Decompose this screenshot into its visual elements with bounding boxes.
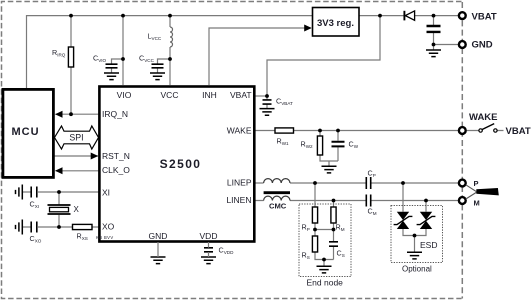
svg-text:CS: CS bbox=[337, 249, 345, 259]
svg-text:CMC: CMC bbox=[269, 201, 287, 210]
svg-text:VBAT: VBAT bbox=[230, 90, 252, 100]
svg-text:P: P bbox=[474, 179, 479, 188]
svg-text:End node: End node bbox=[307, 278, 344, 288]
svg-text:LVCC: LVCC bbox=[148, 32, 162, 42]
svg-text:GND: GND bbox=[472, 40, 493, 51]
svg-text:RW2: RW2 bbox=[301, 140, 314, 150]
svg-text:CXO: CXO bbox=[30, 234, 42, 244]
svg-text:VDD: VDD bbox=[200, 231, 218, 241]
svg-text:ESD: ESD bbox=[420, 240, 437, 250]
svg-text:CVDD: CVDD bbox=[219, 246, 235, 256]
svg-text:GND: GND bbox=[149, 231, 168, 241]
svg-text:RS: RS bbox=[302, 251, 310, 261]
svg-text:IRQ_N: IRQ_N bbox=[102, 109, 128, 119]
svg-text:CW: CW bbox=[349, 140, 359, 150]
svg-text:RST_N: RST_N bbox=[102, 151, 130, 161]
svg-text:CM: CM bbox=[368, 207, 377, 217]
svg-text:VCC: VCC bbox=[161, 90, 179, 100]
svg-text:S2500: S2500 bbox=[160, 157, 202, 171]
svg-text:VIO: VIO bbox=[117, 90, 132, 100]
svg-text:WAKE: WAKE bbox=[469, 112, 498, 123]
svg-text:M: M bbox=[474, 198, 480, 207]
svg-text:CVIO: CVIO bbox=[93, 54, 107, 64]
svg-text:CVBAT: CVBAT bbox=[276, 97, 293, 107]
svg-text:XI: XI bbox=[102, 188, 110, 198]
svg-text:LINEN: LINEN bbox=[226, 195, 251, 205]
svg-text:RW1: RW1 bbox=[277, 137, 290, 147]
svg-text:CVCC: CVCC bbox=[139, 54, 155, 64]
svg-text:Optional: Optional bbox=[402, 265, 432, 274]
svg-text:CLK_O: CLK_O bbox=[102, 165, 130, 175]
svg-text:INH: INH bbox=[202, 90, 217, 100]
svg-text:RIRQ: RIRQ bbox=[52, 48, 66, 58]
svg-text:XO: XO bbox=[102, 222, 115, 232]
svg-text:VBAT: VBAT bbox=[506, 126, 531, 137]
svg-text:X: X bbox=[74, 205, 80, 214]
svg-text:3V3 reg.: 3V3 reg. bbox=[317, 18, 354, 29]
svg-text:VBAT: VBAT bbox=[472, 11, 497, 22]
svg-text:WAKE: WAKE bbox=[227, 126, 252, 136]
svg-text:KB BVV: KB BVV bbox=[96, 235, 114, 240]
svg-text:LINEP: LINEP bbox=[227, 177, 252, 187]
svg-text:SPI: SPI bbox=[69, 132, 83, 142]
svg-text:RP: RP bbox=[302, 223, 310, 233]
svg-text:CXI: CXI bbox=[30, 200, 40, 210]
svg-text:MCU: MCU bbox=[11, 126, 39, 138]
svg-text:RM: RM bbox=[336, 223, 345, 233]
svg-text:RXS: RXS bbox=[77, 232, 88, 242]
svg-text:CP: CP bbox=[368, 169, 376, 179]
